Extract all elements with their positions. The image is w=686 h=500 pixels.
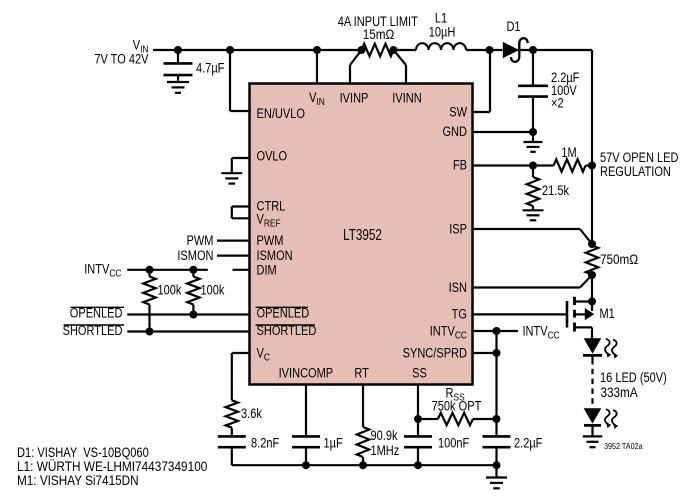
svg-text:M1: VISHAY Si7415DN: M1: VISHAY Si7415DN bbox=[17, 472, 139, 488]
svg-text:100k: 100k bbox=[200, 282, 225, 297]
svg-text:IVINP: IVINP bbox=[340, 90, 369, 105]
svg-text:IVINCOMP: IVINCOMP bbox=[279, 365, 334, 380]
svg-text:INTVCC: INTVCC bbox=[84, 261, 121, 279]
svg-text:FB: FB bbox=[453, 157, 467, 172]
svg-text:IVINN: IVINN bbox=[392, 90, 421, 105]
svg-text:3.6k: 3.6k bbox=[241, 406, 263, 421]
svg-text:100nF: 100nF bbox=[438, 435, 470, 450]
svg-text:OVLO: OVLO bbox=[256, 148, 287, 163]
svg-text:15mΩ: 15mΩ bbox=[363, 26, 395, 42]
svg-text:ISN: ISN bbox=[449, 280, 467, 295]
svg-text:SS: SS bbox=[412, 365, 427, 380]
svg-text:M1: M1 bbox=[600, 306, 615, 321]
svg-text:ISMON: ISMON bbox=[177, 248, 213, 263]
svg-text:1M: 1M bbox=[561, 145, 576, 160]
svg-text:ISMON: ISMON bbox=[256, 248, 292, 263]
svg-text:750k OPT: 750k OPT bbox=[432, 398, 482, 413]
svg-text:90.9k: 90.9k bbox=[370, 428, 398, 443]
svg-text:333mA: 333mA bbox=[600, 384, 638, 400]
svg-text:INTVCC: INTVCC bbox=[522, 323, 559, 341]
svg-text:10µH: 10µH bbox=[429, 24, 456, 39]
svg-text:8.2nF: 8.2nF bbox=[251, 435, 280, 450]
svg-text:SW: SW bbox=[449, 104, 467, 119]
svg-text:×2: ×2 bbox=[551, 95, 564, 110]
svg-text:PWM: PWM bbox=[187, 233, 214, 248]
svg-text:ISP: ISP bbox=[449, 221, 467, 236]
svg-text:3952 TA02a: 3952 TA02a bbox=[604, 441, 643, 451]
svg-text:GND: GND bbox=[442, 124, 467, 139]
svg-text:REGULATION: REGULATION bbox=[600, 164, 671, 179]
svg-text:100k: 100k bbox=[158, 282, 183, 297]
svg-text:1MHz: 1MHz bbox=[370, 443, 399, 458]
svg-text:DIM: DIM bbox=[256, 262, 276, 277]
svg-text:2.2µF: 2.2µF bbox=[514, 435, 543, 450]
svg-text:EN/UVLO: EN/UVLO bbox=[256, 106, 305, 121]
svg-text:D1: D1 bbox=[506, 19, 520, 34]
svg-text:RT: RT bbox=[354, 365, 369, 380]
svg-text:750mΩ: 750mΩ bbox=[600, 251, 638, 267]
svg-text:1µF: 1µF bbox=[324, 435, 344, 450]
svg-text:4.7µF: 4.7µF bbox=[196, 60, 225, 75]
svg-text:TG: TG bbox=[452, 306, 467, 321]
svg-text:16 LED (50V): 16 LED (50V) bbox=[600, 370, 667, 385]
svg-text:LT3952: LT3952 bbox=[343, 225, 382, 243]
svg-text:PWM: PWM bbox=[256, 233, 283, 248]
svg-text:7V TO 42V: 7V TO 42V bbox=[94, 51, 149, 66]
svg-text:21.5k: 21.5k bbox=[542, 183, 570, 198]
svg-text:SYNC/SPRD: SYNC/SPRD bbox=[403, 345, 467, 360]
